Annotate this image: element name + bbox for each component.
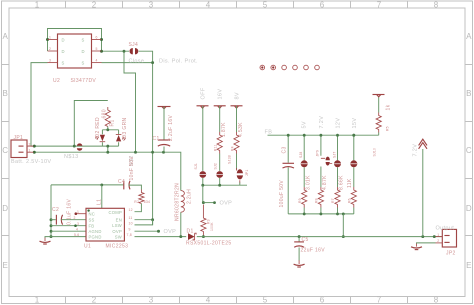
- svg-text:Dis. Pol. Prot.: Dis. Pol. Prot.: [159, 58, 198, 64]
- svg-text:MIC2253: MIC2253: [106, 243, 129, 249]
- frame column ticks top: [66, 1, 408, 8]
- node N$13 LED drop: [106, 151, 109, 154]
- node LED loop junction: [73, 145, 76, 148]
- svg-text:SS: SS: [89, 218, 95, 223]
- node SJ8 on FB rail: [303, 134, 306, 137]
- wire output line left part: [135, 236, 187, 238]
- wire R1 bottom to rail: [107, 127, 109, 130]
- svg-text:U2: U2: [53, 78, 60, 84]
- transistor U2 body: [58, 34, 92, 68]
- svg-text:1.87K: 1.87K: [221, 122, 227, 137]
- svg-text:N$13: N$13: [64, 154, 79, 160]
- svg-text:EN: EN: [116, 218, 122, 223]
- svg-text:C4: C4: [118, 179, 125, 185]
- node NC pin end: [75, 212, 78, 215]
- svg-text:D: D: [62, 38, 65, 43]
- svg-text:SJ7: SJ7: [332, 152, 336, 158]
- wire 8V column top: [236, 106, 238, 132]
- mounting hole H3: [282, 65, 287, 70]
- svg-text:1: 1: [35, 1, 40, 10]
- svg-text:JP1: JP1: [14, 135, 24, 141]
- pin JP2-2 stub: [436, 242, 443, 244]
- svg-text:B: B: [466, 89, 471, 98]
- wire U2 pin3 to battery: [31, 63, 48, 147]
- node rail drop: [342, 212, 345, 215]
- wire OFF jumper stem: [202, 178, 204, 185]
- wire supply to C1: [163, 107, 165, 140]
- svg-text:C: C: [2, 146, 8, 155]
- node LED rail bottom: [106, 145, 109, 148]
- svg-text:D: D: [82, 49, 85, 54]
- node U2 pin1: [46, 38, 49, 41]
- svg-text:3: 3: [49, 59, 51, 63]
- svg-text:100K: 100K: [210, 222, 214, 231]
- node N$13 C1: [162, 151, 165, 154]
- node U2 pin5: [100, 50, 103, 53]
- node JP2 pin1: [433, 235, 436, 238]
- svg-text:SJ8: SJ8: [299, 152, 303, 158]
- wire C5 stem: [298, 237, 300, 242]
- supply symbol 16V: [214, 105, 226, 107]
- node rail FB row: [50, 224, 53, 227]
- svg-text:FB: FB: [89, 224, 95, 229]
- svg-text:JP1: JP1: [245, 170, 249, 176]
- wire D3 column: [118, 130, 120, 146]
- svg-text:Output: Output: [436, 226, 455, 232]
- node JP1 pin2: [33, 145, 36, 148]
- svg-text:1: 1: [77, 210, 79, 214]
- svg-text:AGND: AGND: [89, 229, 102, 234]
- svg-text:OFF: OFF: [200, 87, 206, 99]
- svg-text:10: 10: [129, 221, 133, 225]
- capacitor C4: [124, 181, 130, 190]
- wire FB row: [51, 225, 86, 227]
- svg-text:5: 5: [263, 1, 268, 10]
- svg-text:634: 634: [144, 200, 150, 204]
- pin U2-6: [92, 39, 102, 41]
- wire R5 column: [378, 97, 380, 136]
- svg-text:8.66K: 8.66K: [339, 175, 345, 190]
- svg-text:L1: L1: [97, 199, 103, 205]
- svg-text:C3: C3: [281, 146, 287, 153]
- svg-text:B: B: [3, 89, 8, 98]
- node drop on output: [342, 235, 345, 238]
- resistor R11: [217, 132, 222, 154]
- svg-text:R1: R1: [109, 119, 115, 126]
- node R3 top / OVP: [202, 201, 205, 204]
- wire PGND row: [51, 236, 86, 238]
- svg-text:SJ1B: SJ1B: [227, 155, 231, 164]
- svg-text:8V: 8V: [234, 92, 240, 99]
- capacitor C3: [283, 163, 295, 168]
- connector JP1 body: [11, 140, 27, 158]
- wire R9 to bottom rail: [303, 208, 305, 214]
- node C5 on output: [298, 235, 301, 238]
- svg-text:5,6: 5,6: [74, 233, 79, 237]
- svg-text:0.1uF 16V: 0.1uF 16V: [67, 198, 73, 225]
- svg-text:4: 4: [96, 59, 98, 63]
- svg-text:R8: R8: [315, 198, 319, 203]
- mounting hole H1: [260, 65, 265, 70]
- connector JP2 body: [442, 229, 456, 247]
- svg-text:SJ10: SJ10: [373, 148, 377, 157]
- frame column numbers bottom: [35, 296, 439, 305]
- diode D3 LED: [116, 135, 126, 142]
- svg-text:4: 4: [206, 1, 211, 10]
- pin U2-4: [92, 62, 102, 64]
- wire 16V jumper stem: [219, 178, 221, 185]
- svg-text:5: 5: [96, 47, 98, 51]
- svg-text:NC: NC: [89, 211, 96, 216]
- svg-text:C: C: [466, 146, 472, 155]
- solder jumper SJ5 pad: [199, 171, 206, 178]
- node JP9 on FB rail: [319, 134, 322, 137]
- svg-text:6: 6: [96, 36, 98, 40]
- svg-text:D3 GRN: D3 GRN: [122, 117, 128, 138]
- wire PGND to ground: [45, 237, 51, 238]
- svg-text:RSX501L-20TE25: RSX501L-20TE25: [186, 241, 231, 247]
- wire OVP stub at R3: [203, 202, 214, 204]
- svg-text:R2: R2: [134, 200, 139, 204]
- wire LED rail drop to N$13: [107, 146, 109, 152]
- svg-text:U1: U1: [84, 243, 91, 249]
- node N$13 step-wire: [134, 151, 137, 154]
- wire ground rail left of U1: [50, 185, 52, 237]
- pin U2-5: [92, 50, 102, 52]
- capacitor C5 (polarized): [294, 242, 304, 247]
- svg-text:3: 3: [77, 222, 79, 226]
- wire JP2 pin2 to ground: [417, 242, 436, 245]
- svg-text:JP2: JP2: [446, 250, 456, 256]
- ground at JP2: [416, 244, 418, 247]
- wire R2 to COMP: [135, 204, 142, 212]
- svg-text:JP9: JP9: [315, 150, 319, 156]
- mounting hole H4: [293, 65, 298, 70]
- node rail SS row: [50, 218, 53, 221]
- svg-text:2: 2: [92, 1, 97, 10]
- wire C2 to SS: [61, 219, 86, 221]
- svg-text:12V: 12V: [335, 118, 341, 129]
- wire GND/comp line: [51, 184, 123, 186]
- svg-text:2: 2: [29, 142, 31, 146]
- pin JP2-1 stub: [436, 236, 443, 238]
- svg-text:1: 1: [29, 148, 31, 152]
- node OFF on bus: [201, 184, 204, 187]
- svg-text:COMP: COMP: [108, 210, 122, 215]
- wire AGND row: [51, 230, 86, 232]
- wire OVP stub at U1: [135, 230, 159, 232]
- diode D2 LED: [95, 135, 105, 142]
- svg-text:FB: FB: [265, 130, 273, 136]
- svg-text:PGND: PGND: [89, 235, 102, 240]
- solder jumper SJ10 pad: [350, 160, 357, 167]
- svg-text:D: D: [2, 204, 8, 213]
- wire SJ4 right to corner down: [139, 51, 153, 225]
- svg-text:22uF 16V: 22uF 16V: [301, 248, 326, 254]
- wire selector feedback bus: [203, 184, 247, 186]
- svg-text:4: 4: [206, 296, 211, 305]
- resistor R1: [105, 107, 110, 127]
- node SJ10 rail junction: [352, 134, 355, 137]
- svg-text:7: 7: [377, 1, 382, 10]
- wire SJ10 column: [353, 135, 355, 187]
- wire SJ4 bypass step: [124, 51, 136, 152]
- svg-text:OVP: OVP: [112, 229, 122, 234]
- svg-text:3: 3: [149, 1, 154, 10]
- pin JP1-2 stub: [27, 145, 34, 147]
- svg-text:7: 7: [377, 296, 382, 305]
- svg-text:11: 11: [129, 216, 133, 220]
- pin U2-2: [48, 50, 58, 52]
- svg-text:SI3477DV: SI3477DV: [71, 78, 97, 84]
- svg-text:D: D: [62, 49, 65, 54]
- node FB pin dark dot: [74, 224, 77, 227]
- svg-text:S: S: [82, 61, 85, 66]
- mounting hole H6: [315, 65, 320, 70]
- wire output line right part: [197, 236, 442, 238]
- node SJ7 on FB rail: [336, 134, 339, 137]
- wire C1 to N$13: [163, 147, 165, 153]
- node 7.2V riser on output: [421, 235, 424, 238]
- solder jumper SJ6 pad: [216, 171, 223, 178]
- resistor R4: [234, 132, 239, 154]
- svg-text:OVP: OVP: [220, 200, 233, 206]
- svg-text:1k: 1k: [386, 104, 392, 110]
- node C3 on FB rail: [287, 134, 290, 137]
- svg-text:3: 3: [149, 296, 154, 305]
- node JP1 pin1: [33, 151, 36, 154]
- node pin4 junction: [151, 61, 154, 64]
- svg-text:A: A: [466, 32, 472, 41]
- wire SJ7 column: [337, 135, 339, 187]
- pin NC stub (unconnected): [76, 213, 86, 215]
- svg-text:5V: 5V: [301, 121, 307, 128]
- svg-text:7,8: 7,8: [127, 233, 132, 237]
- wire bus down to R3: [202, 185, 204, 202]
- svg-text:E: E: [3, 261, 8, 270]
- capacitor C1 (polarized): [158, 140, 170, 146]
- wire U2 gate loop left: [48, 29, 102, 52]
- supply symbol OFF: [197, 105, 209, 107]
- svg-text:100uF 50V: 100uF 50V: [279, 180, 285, 208]
- node SJ10 on FB rail: [352, 134, 355, 137]
- svg-text:C1: C1: [153, 136, 160, 142]
- node R1 rail: [106, 128, 109, 131]
- ground below C5: [298, 260, 300, 264]
- diode D1 schottky: [188, 233, 196, 240]
- svg-text:16V: 16V: [218, 89, 224, 100]
- svg-text:C2: C2: [52, 207, 59, 213]
- frame column numbers top: [35, 1, 439, 10]
- wire L1 bottom to SW node: [180, 212, 182, 236]
- svg-text:6: 6: [320, 1, 325, 10]
- node rail PGND row: [50, 235, 53, 238]
- svg-text:4.87K: 4.87K: [322, 175, 328, 190]
- svg-text:R6: R6: [348, 198, 352, 203]
- resistor R8: [318, 187, 323, 208]
- wire EN from riser: [135, 219, 153, 221]
- svg-text:SJ4: SJ4: [129, 42, 139, 48]
- solder jumper on battery line (vertical): [77, 143, 83, 150]
- wire 8V jumper stem: [239, 183, 241, 186]
- svg-text:R5: R5: [386, 126, 390, 131]
- svg-text:A: A: [3, 32, 9, 41]
- svg-text:1: 1: [49, 36, 51, 40]
- svg-text:15V: 15V: [352, 118, 358, 129]
- svg-text:11K: 11K: [347, 178, 353, 188]
- wire C4 to R2: [129, 185, 142, 189]
- svg-text:R4: R4: [231, 146, 235, 151]
- wire U2 pin4 net: [102, 62, 153, 64]
- svg-text:S: S: [82, 38, 85, 43]
- mounting hole H2: [271, 65, 276, 70]
- mounting hole H5: [304, 65, 309, 70]
- wire 7.2V riser: [422, 149, 424, 237]
- wire riser to LSW: [135, 220, 153, 225]
- svg-text:Close: Close: [129, 58, 145, 64]
- supply symbol above C1: [158, 106, 171, 108]
- svg-text:2.2uH: 2.2uH: [186, 189, 192, 204]
- svg-text:9: 9: [129, 227, 131, 231]
- wire LED top loop: [74, 101, 108, 147]
- wire OFF column: [202, 106, 204, 171]
- wire U2 pin5 to SJ4: [102, 50, 130, 52]
- wire rail drop to output: [342, 214, 344, 237]
- svg-text:R9: R9: [298, 198, 302, 203]
- wire LED anode rail: [102, 129, 118, 131]
- node rail AGND row: [50, 230, 53, 233]
- node rail R8: [319, 212, 322, 215]
- svg-text:2: 2: [437, 239, 439, 243]
- pin U2-1: [48, 39, 58, 41]
- resistor R7: [335, 187, 340, 208]
- resistor R2: [139, 190, 144, 204]
- resistor R5: [376, 113, 381, 133]
- wire JP1 pin2 / LED cathode rail: [34, 145, 119, 147]
- svg-text:C5: C5: [302, 237, 309, 243]
- node rail R9: [303, 212, 306, 215]
- node SJ4 left junction: [123, 50, 126, 53]
- node OVP stub end: [213, 201, 216, 204]
- svg-text:E: E: [466, 261, 471, 270]
- resistor R3: [201, 205, 206, 237]
- svg-text:1: 1: [35, 296, 40, 305]
- svg-text:7.2V: 7.2V: [319, 116, 325, 129]
- svg-text:4: 4: [76, 227, 78, 231]
- frame column ticks bottom: [66, 297, 408, 304]
- solder jumper SJ7 pad: [334, 160, 341, 167]
- svg-text:7.2V: 7.2V: [412, 144, 418, 157]
- svg-text:OVP: OVP: [164, 229, 177, 235]
- capacitor C2: [56, 215, 62, 225]
- svg-text:D: D: [466, 204, 472, 213]
- inductor L1: [181, 191, 185, 213]
- wire R7 to bottom rail: [337, 208, 339, 214]
- wire FB rail: [268, 134, 379, 136]
- svg-text:R11: R11: [214, 144, 218, 151]
- svg-text:1: 1: [437, 233, 439, 237]
- svg-text:680: 680: [102, 109, 108, 118]
- wire D2 column: [101, 130, 103, 146]
- wire JP9 column: [320, 135, 322, 187]
- svg-text:SJ2: SJ2: [214, 163, 218, 169]
- wire C3 column: [287, 135, 289, 214]
- node riser crosses N$13: [151, 151, 154, 154]
- svg-text:12: 12: [129, 208, 133, 212]
- node U1 origin mark: [87, 209, 89, 211]
- solder jumper JP9 (capsule): [321, 157, 332, 166]
- svg-text:8: 8: [434, 296, 439, 305]
- svg-text:R7: R7: [331, 198, 335, 203]
- svg-text:SW: SW: [115, 235, 122, 240]
- node rail R7: [336, 212, 339, 215]
- wire R6 to bottom rail: [353, 208, 355, 214]
- node L1 on output: [179, 235, 182, 238]
- wire 8V column bottom: [236, 154, 238, 170]
- wire C5 to ground: [298, 248, 300, 261]
- supply arrow 7.2V: [419, 139, 427, 149]
- svg-text:2.2uF 16V: 2.2uF 16V: [168, 114, 174, 141]
- solder jumper SJ1B (capsule): [237, 168, 244, 183]
- svg-text:D1: D1: [187, 228, 194, 234]
- svg-text:2: 2: [49, 47, 51, 51]
- frame row letters left: [2, 32, 8, 270]
- frame row ticks left: [2, 65, 10, 236]
- svg-text:D2 RED: D2 RED: [95, 117, 101, 137]
- pin JP2-2 contact: [444, 241, 449, 243]
- pin JP1-2 contact: [19, 145, 24, 147]
- svg-text:SJ1: SJ1: [194, 163, 198, 169]
- resistor R6: [351, 187, 356, 208]
- IC U1 body: [86, 208, 124, 241]
- supply symbol 8V: [231, 105, 243, 107]
- frame row letters right: [466, 32, 472, 270]
- node pad pin 11: [100, 183, 103, 186]
- svg-text:S: S: [62, 61, 65, 66]
- svg-text:8: 8: [434, 1, 439, 10]
- pin U2-3: [48, 62, 58, 64]
- solder jumper SJ4: [130, 48, 139, 54]
- node OVP stub end: [157, 230, 160, 233]
- pin JP2-1 contact: [444, 235, 449, 237]
- wire R8 to bottom rail: [320, 208, 322, 214]
- svg-text:10nF 50V: 10nF 50V: [129, 156, 135, 181]
- resistor R9: [302, 187, 307, 208]
- frame row ticks right: [465, 65, 473, 236]
- svg-text:5: 5: [263, 296, 268, 305]
- node R3 bottom on output: [202, 235, 205, 238]
- svg-text:4.53K: 4.53K: [238, 122, 244, 137]
- wire 16V column top: [219, 106, 221, 132]
- svg-text:2: 2: [74, 216, 76, 220]
- node U2 pin6: [100, 38, 103, 41]
- solder jumper SJ8 pad: [301, 160, 308, 167]
- svg-text:2: 2: [92, 296, 97, 305]
- supply symbol above R5: [373, 94, 385, 96]
- wire pad pin drop: [101, 185, 103, 208]
- pin JP1-1 stub: [27, 151, 34, 153]
- svg-text:LSW: LSW: [112, 223, 122, 228]
- svg-text:6: 6: [320, 296, 325, 305]
- svg-text:3.01K: 3.01K: [305, 175, 311, 190]
- wire SJ8 column: [303, 135, 305, 187]
- wire 16V column bottom: [219, 154, 221, 171]
- wire rail to C2: [51, 219, 56, 221]
- node EN junction: [151, 218, 154, 221]
- svg-text:NR6028T2R2N: NR6028T2R2N: [175, 183, 181, 221]
- wire divider bottom rail: [288, 213, 354, 215]
- svg-text:Batt. 2.5V-10V: Batt. 2.5V-10V: [11, 159, 51, 165]
